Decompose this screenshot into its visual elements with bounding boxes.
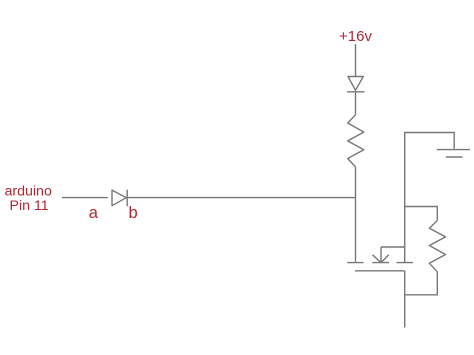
- wire (output stub): [404, 295, 406, 328]
- diode D2 cathode bar: [126, 190, 128, 207]
- wire (source up to ground net): [405, 133, 455, 263]
- wire (gate tail): [404, 271, 406, 295]
- wire (input net from arduino): [62, 197, 108, 199]
- ground: [437, 150, 470, 157]
- wire: [355, 92, 357, 115]
- wire: [355, 167, 357, 262]
- wire: [127, 197, 355, 199]
- diode D1 (cathode down): [348, 77, 363, 91]
- diode D1 cathode bar: [347, 91, 365, 93]
- transistor Q1 right (source) bar: [397, 262, 413, 264]
- wire (resistor R2 top): [405, 207, 438, 221]
- wire (body tie to source): [381, 246, 405, 248]
- svg-text:+16v: +16v: [339, 28, 372, 45]
- resistor R1: [348, 115, 364, 167]
- svg-text:Pin 11: Pin 11: [10, 198, 49, 214]
- transistor Q1 body bar: [372, 262, 389, 264]
- wire (resistor R2 bottom): [405, 272, 438, 295]
- svg-text:a: a: [89, 204, 99, 222]
- svg-text:b: b: [129, 204, 138, 222]
- transistor Q1 body arrow: [373, 247, 389, 263]
- transistor Q1 left (drain) bar: [347, 262, 363, 264]
- node +16v supply wire: [355, 44, 357, 76]
- transistor Q1 gate plate: [355, 270, 405, 272]
- diode D2 (anode a, cathode b): [112, 190, 126, 206]
- resistor R2: [429, 221, 445, 272]
